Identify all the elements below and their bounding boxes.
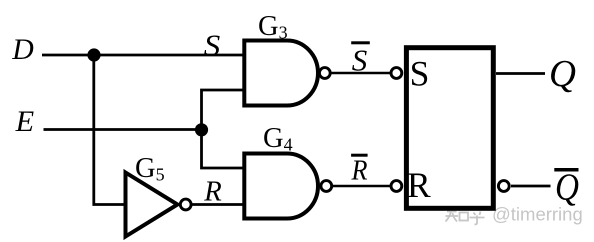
wire Q output [496,72,545,75]
wire S-bar from G3 output to latch S input [330,72,391,75]
svg-text:R: R [203,176,222,208]
svg-text:E: E [15,105,35,138]
latch U1 box [406,48,493,209]
wire E horizontal [44,128,202,131]
watermark zhihu glyph 知 [446,208,469,222]
nand-gate G4 body [244,154,318,219]
svg-text:S: S [352,43,368,78]
watermark zhihu glyph 乎 [470,208,485,225]
wire R-bar from G4 output to latch R input [332,185,391,188]
nand-gate G4 output bubble [321,181,332,192]
svg-text:Q: Q [555,166,579,208]
wire D horizontal to G3 upper input [42,54,246,57]
latch S input bubble [391,68,402,79]
nand-gate G3 output bubble [319,68,330,79]
inverter G5 body [126,173,178,237]
nand-gate G3 body [244,41,318,106]
wire Q-bar output [511,185,551,188]
node label S-bar overline [351,41,370,44]
wire D branch down and right to G5 input [94,55,126,205]
node junction dot on D wire [87,48,100,61]
node label R-bar overline [351,154,368,157]
svg-text:S: S [410,54,430,94]
svg-text:D: D [11,33,34,66]
inverter G5 output bubble [180,199,191,210]
svg-text:R: R [351,156,368,187]
node junction dot on E wire [195,123,208,136]
svg-text:Q: Q [549,53,576,95]
svg-text:R: R [407,165,431,205]
output label Q-bar overline [554,168,578,172]
latch Q-bar output bubble [498,181,509,192]
svg-text:S: S [204,28,221,63]
latch R input bubble [391,181,402,192]
wire E branch to G3 lower input and G4 upper input [202,90,247,168]
wire R from G5 bubble to G4 lower input [192,203,246,206]
